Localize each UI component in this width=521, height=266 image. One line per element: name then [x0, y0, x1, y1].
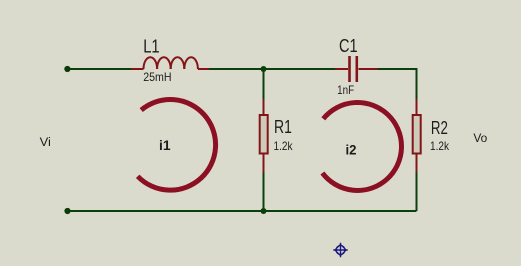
svg-text:R2: R2	[431, 118, 448, 138]
svg-text:L1: L1	[143, 36, 160, 56]
terminal node bottom-left	[64, 208, 70, 214]
inductor L1	[131, 57, 209, 69]
wire top-middle segment (L1 to node to C1)	[208, 68, 336, 70]
svg-text:Vo: Vo	[473, 131, 487, 145]
svg-text:25mH: 25mH	[143, 70, 171, 84]
svg-text:Vi: Vi	[40, 137, 51, 149]
resistor R2	[413, 99, 421, 173]
junction node top-middle	[261, 66, 267, 72]
terminal node top-left	[64, 66, 70, 72]
junction node bottom-middle	[261, 208, 267, 214]
wire middle vertical lower (R1 to bottom node)	[263, 172, 265, 211]
svg-text:i1: i1	[159, 137, 171, 153]
wire bottom segment	[68, 210, 417, 212]
svg-text:1nF: 1nF	[337, 83, 354, 97]
svg-text:C1: C1	[339, 36, 358, 56]
wire middle vertical upper (node to R1)	[263, 69, 265, 100]
wire right vertical lower (R2 to bottom corner)	[416, 172, 418, 211]
wire top-right segment (C1 to corner to R2 top)	[377, 69, 417, 100]
svg-text:R1: R1	[274, 117, 292, 137]
mesh current arc i2	[322, 102, 401, 190]
svg-text:1.2k: 1.2k	[430, 139, 450, 153]
resistor R1	[260, 99, 268, 173]
capacitor C1	[335, 56, 378, 82]
svg-text:i2: i2	[346, 141, 357, 157]
origin marker (blue crosshair)	[333, 243, 347, 257]
wire top-left segment	[67, 68, 132, 70]
mesh current arc i1	[138, 100, 216, 191]
svg-text:1.2k: 1.2k	[274, 139, 294, 153]
